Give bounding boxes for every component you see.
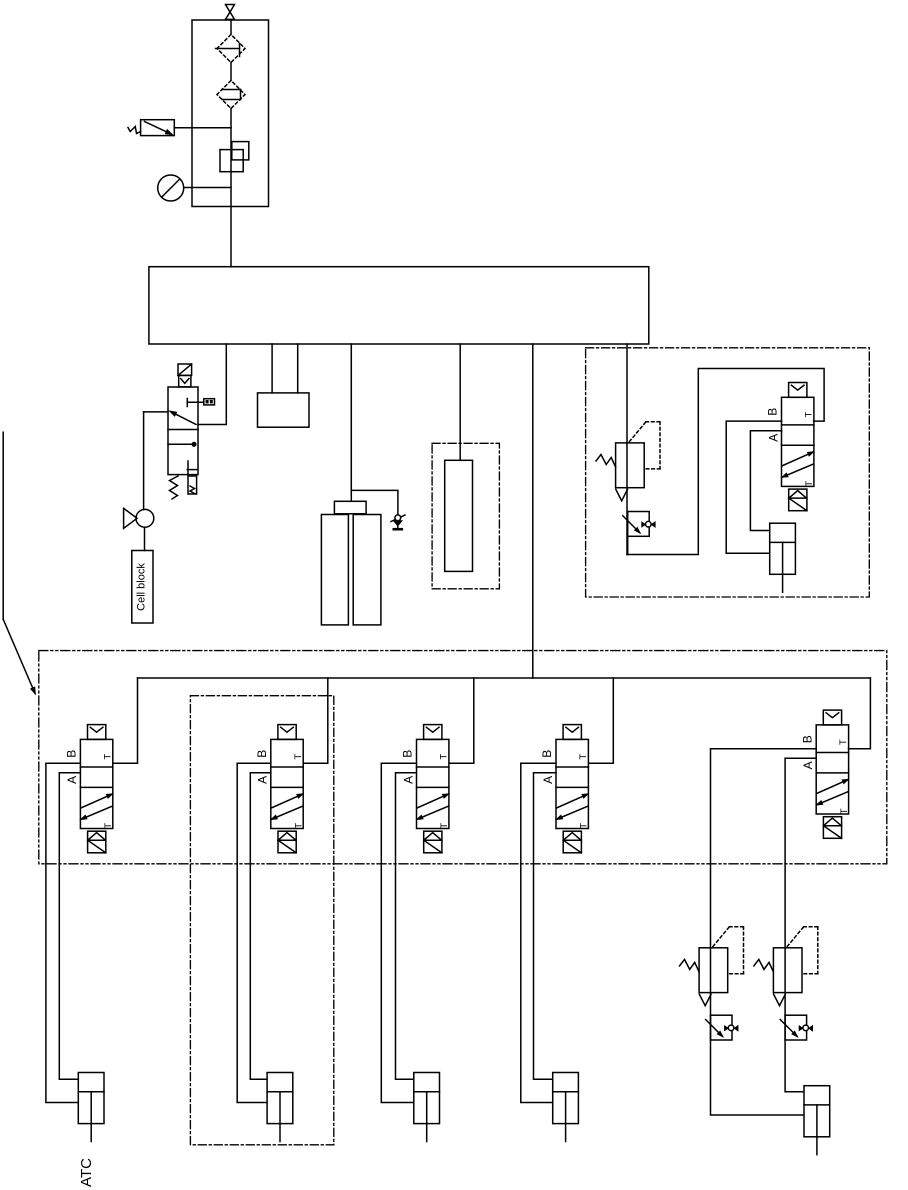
pressure regulator RG3 (right, bottom-right area) bbox=[754, 927, 818, 1006]
wire: SV4 port A to cylinder C4 top port bbox=[534, 773, 557, 1079]
wire: manifold to terminal block (right leg) bbox=[297, 344, 299, 393]
wire: supply riser to valve SV1 T port bbox=[113, 678, 138, 763]
pressure gauge G1 bbox=[158, 175, 184, 201]
valve SV3 (5/2 solenoid valve) bbox=[401, 725, 451, 853]
relief valve RV1 (left of FRL) bbox=[141, 120, 175, 136]
wire: supply riser to valve SV5 T port bbox=[849, 678, 871, 749]
enclosure box top-right (dash-dot): clamp circuit bbox=[586, 348, 870, 597]
valve SV6 (5/2 solenoid valve, top-right box) bbox=[766, 382, 816, 510]
terminal block bbox=[258, 393, 310, 427]
air tank left bbox=[321, 515, 348, 625]
twin air tanks header cap bbox=[334, 501, 366, 514]
wire: SV1 port A to cylinder C1 top port bbox=[59, 773, 80, 1079]
blocked port with dot inside SV0 bbox=[168, 443, 194, 445]
cylinder C1 bbox=[78, 1073, 104, 1142]
T mark at bottom of SV0 bbox=[187, 461, 189, 475]
cylinder C4 bbox=[553, 1073, 579, 1142]
wire: relief valve to FRL line bbox=[174, 127, 231, 129]
wire: supply riser to valve SV3 T port bbox=[450, 678, 474, 763]
wire: branch to exhaust throttle EX1 bbox=[351, 490, 398, 514]
wire: stub from enclosure top to filter diamond bbox=[230, 21, 232, 35]
wire: SV3 port B to cylinder C3 bottom port bbox=[381, 763, 416, 1102]
svg-text:Cell block: Cell block bbox=[136, 563, 148, 611]
flow arrow inside SV0 bbox=[171, 412, 197, 425]
valve bank enclosure (large dash-dot box) bbox=[39, 651, 887, 864]
FRL unit enclosure box bbox=[192, 20, 269, 207]
wire: supply riser to valve SV2 T port bbox=[303, 678, 328, 763]
pressure regulator PR1 (overlapping squares in FRL) bbox=[232, 142, 249, 160]
wire: SV2 port B to cylinder C2 bottom port bbox=[237, 763, 271, 1102]
cylinder CR (top-right box) bbox=[770, 523, 796, 592]
wire: supply riser to valve SV4 T port bbox=[589, 678, 613, 763]
pressure regulator RG2 (left, bottom-right area) bbox=[680, 927, 744, 1006]
return spring of valve SV0 bbox=[170, 476, 179, 499]
inner enclosure around valve SV2 / cylinder C2 (dash-dot) bbox=[190, 696, 333, 1145]
wire: gauge to FRL line bbox=[184, 187, 231, 189]
exhaust throttle EX1 (check ball on seat) bbox=[391, 515, 405, 522]
exhaust stub with spring under SV0 bbox=[188, 476, 197, 494]
wire: manifold to pressure regulator RG1 (top-right box) bbox=[626, 344, 628, 555]
cylinder C3 bbox=[414, 1073, 440, 1142]
wire: FRL main vertical line down to manifold bbox=[230, 109, 232, 267]
valve SV2 (5/2 solenoid valve) bbox=[255, 725, 305, 853]
wire: SV5 port A down through regulator RG3 and FC3 to cylinder C5 top port bbox=[785, 758, 816, 1092]
wire: between filter and lubricator diamonds bbox=[230, 63, 232, 81]
flow control valve FC1 in top-right box bbox=[623, 512, 656, 537]
wire: SV6 port B to cylinder CR bottom port bbox=[726, 421, 782, 553]
wire: manifold to terminal block (left leg) bbox=[271, 344, 273, 393]
enclosure box of air dryer (dash-dot) bbox=[432, 443, 499, 589]
valve SV4 (5/2 solenoid valve) bbox=[540, 725, 590, 853]
Cell block bbox=[132, 551, 153, 624]
wire: SV6 port A to cylinder CR top port bbox=[750, 431, 781, 531]
cylinder C5 bbox=[804, 1086, 830, 1155]
wire: SV5 port B down through regulator RG2 and FC2 to cylinder C5 bottom port bbox=[711, 749, 817, 1115]
air manifold block bbox=[149, 267, 649, 344]
flow control valve FC2 (left, bottom-right area) bbox=[706, 1015, 739, 1040]
pressure regulator RG1 in top-right box bbox=[596, 422, 660, 501]
pilot chevron of valve SV0 bbox=[179, 375, 191, 387]
valve SV0 body (3/2 shut-off valve) bbox=[168, 387, 198, 475]
exhaust pin and connector of SV0 bbox=[186, 399, 188, 407]
wire: manifold to valve SV0 supply port bbox=[198, 344, 226, 425]
wire: SV0 out port down to blow nozzle bbox=[144, 411, 168, 413]
wire: SV1 port B to cylinder C1 bottom port bbox=[46, 763, 81, 1102]
air dryer column bbox=[445, 460, 473, 571]
wire: manifold main drop to bottom valve bank supply bbox=[532, 344, 534, 678]
valve SV1 (5/2 solenoid valve) bbox=[65, 725, 115, 853]
svg-text:ATC: ATC bbox=[78, 1158, 95, 1187]
air tank right bbox=[353, 515, 381, 625]
cylinder C2 bbox=[267, 1073, 293, 1142]
wire: common supply line of valve bank bbox=[138, 677, 871, 679]
wire: FC1 down, across and up to valve SV6 T port bbox=[626, 554, 629, 556]
solenoid coil of valve SV0 bbox=[178, 364, 192, 375]
wire: manifold down to twin air tanks bbox=[350, 344, 352, 501]
wire: SV3 port A to cylinder C3 top port bbox=[396, 773, 417, 1079]
lubricator L1 (dashed diamond) bbox=[217, 81, 245, 109]
leader arrow pointing to valve bank enclosure bbox=[2, 432, 4, 619]
wire: SV2 port A to cylinder C2 top port bbox=[250, 773, 270, 1079]
wire: SV4 port B to cylinder C4 bottom port bbox=[521, 763, 556, 1102]
blow nozzle NZ1 (triangle and circle) bbox=[124, 508, 137, 528]
spring of relief valve RV1 bbox=[128, 127, 141, 134]
wire: manifold down to air dryer unit bbox=[459, 344, 461, 460]
valve SV5 (5/2 solenoid valve) bbox=[800, 710, 850, 838]
wire: nozzle to Cell block bbox=[144, 527, 146, 550]
flow control valve FC3 (right, bottom-right area) bbox=[780, 1015, 813, 1040]
filter F1 (dashed diamond with drain) bbox=[217, 35, 245, 63]
air inlet symbol (bowtie) above FRL unit bbox=[226, 5, 235, 13]
